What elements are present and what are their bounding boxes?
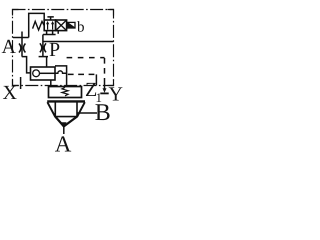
- solenoid fill: [67, 22, 75, 28]
- svg-text:A: A: [2, 36, 17, 58]
- orifice O2 arcs: [40, 43, 46, 52]
- poppet tip fill: [61, 122, 67, 127]
- solenoid box: [67, 22, 75, 28]
- cover (control chamber): [49, 87, 82, 98]
- flow arrows in left square: [48, 23, 53, 29]
- wire orifice O2 to shuttle top: [46, 57, 48, 67]
- junction bar under orifice O2: [39, 56, 48, 58]
- svg-text:P: P: [49, 39, 60, 61]
- shuttle valve seat line: [40, 72, 56, 74]
- wire from A line up to pilot valve: [29, 13, 45, 37]
- port B line: [77, 112, 97, 114]
- cartridge cup left slant: [47, 102, 55, 117]
- port A line: [13, 37, 29, 39]
- svg-text:B: B: [95, 100, 111, 126]
- pressure line hook and long line to frame right: [43, 41, 114, 43]
- main spring in cover: [62, 87, 68, 96]
- cartridge cup top bar: [47, 100, 85, 102]
- pilot valve right square (blocked position, X): [56, 20, 67, 31]
- dashed line to port Z1: [68, 73, 97, 75]
- poppet rectangle: [55, 102, 77, 116]
- pilot pressure line stub from valve: [57, 31, 59, 34]
- orifice O1 vertical line: [21, 32, 23, 57]
- plugged bridge below pilot valve: [43, 31, 56, 35]
- plugged port above pilot valve: [47, 17, 53, 20]
- pilot valve left square (flow position): [44, 20, 55, 31]
- svg-text:X: X: [3, 82, 18, 104]
- shuttle valve body: [31, 67, 56, 80]
- orifice O1 arcs: [19, 44, 25, 53]
- arrowheads of pilot valve flow arrows: [46, 21, 49, 24]
- spring (pilot valve, left): [33, 21, 45, 30]
- frame corner reinforcements: [13, 10, 114, 86]
- orifice O2 vertical line: [42, 35, 44, 57]
- shuttle valve ball: [33, 70, 40, 77]
- svg-text:A: A: [55, 132, 72, 157]
- svg-text:b: b: [77, 20, 85, 36]
- port A line below valve: [63, 126, 65, 134]
- drain arrowhead: [103, 88, 107, 93]
- poppet seat V: [55, 117, 77, 127]
- drain to tank symbol (port Y): [104, 82, 106, 90]
- wire shuttle output with bridge hump: [55, 71, 67, 73]
- port X stub: [20, 77, 22, 89]
- wire shuttle bottom to cover: [50, 80, 52, 87]
- cartridge cup right slant: [77, 102, 85, 117]
- wire shuttle top-right to node: [55, 66, 67, 87]
- wire orifice O1 to shuttle valve: [22, 57, 31, 73]
- dashed drain line to port Y: [67, 57, 105, 59]
- enclosure frame (chain line): [13, 10, 114, 86]
